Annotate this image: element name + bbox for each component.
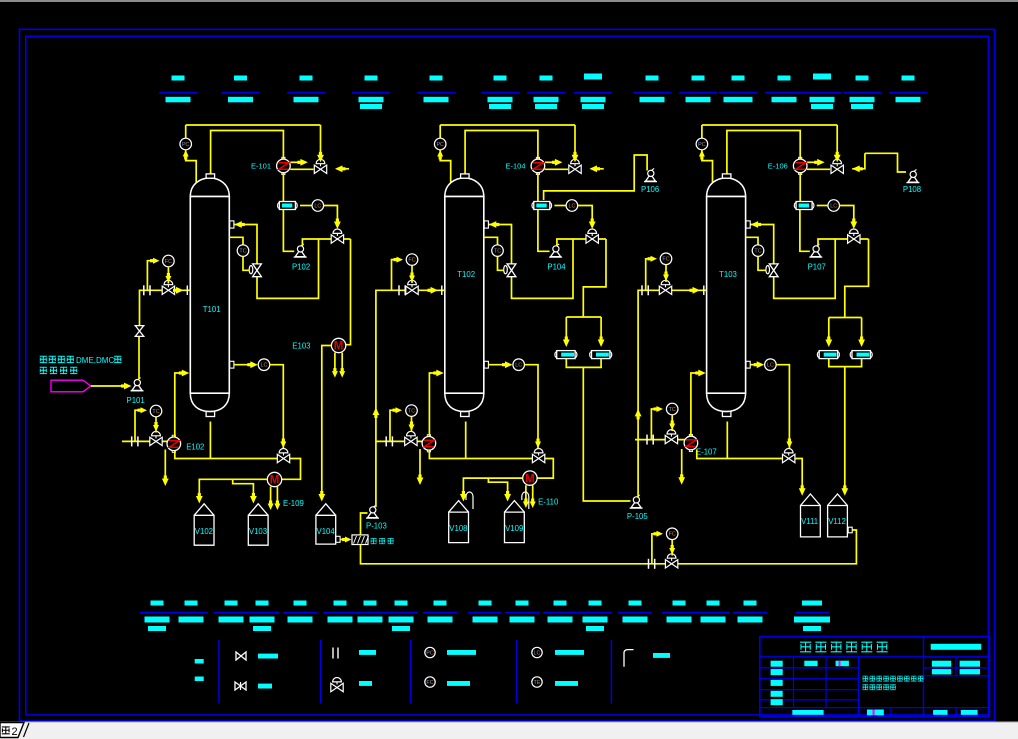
layout tab text <box>2 727 10 734</box>
pump P108 <box>906 182 919 184</box>
svg-text:2: 2 <box>12 726 18 738</box>
svg-text:V103: V103 <box>249 527 267 536</box>
wire P106 to reflux drum T102 <box>544 155 648 200</box>
pump P102 <box>294 256 307 258</box>
wire drum to pump P107 <box>800 210 810 252</box>
wire T102 distillate to driers <box>583 239 606 317</box>
svg-text:LC: LC <box>767 363 774 369</box>
control valve feed T102 <box>406 286 412 294</box>
feed annotation text line2 <box>40 367 47 373</box>
svg-text:TE: TE <box>534 680 541 686</box>
svg-text:T103: T103 <box>719 270 737 279</box>
drier A <box>555 352 559 358</box>
wire condenser to reflux valve <box>807 168 830 170</box>
control valve steam T101 <box>150 437 156 445</box>
control valve distillate T103 <box>848 235 854 243</box>
wire condenser to reflux drum <box>799 173 801 202</box>
wire feed arrow into T102 <box>431 287 439 294</box>
wire T102 bottom nozzle drop <box>465 422 467 459</box>
flange steam T102 <box>385 436 387 446</box>
wire distillate to E103 <box>346 239 351 345</box>
svg-text:P104: P104 <box>547 263 566 272</box>
instrument LC reflux drum <box>300 205 312 207</box>
cooler E103 <box>331 338 345 352</box>
wire PC to column top <box>702 150 713 183</box>
mixer <box>352 535 368 545</box>
svg-text:P107: P107 <box>808 263 826 272</box>
vessel V109 <box>505 512 525 543</box>
column T103 <box>707 178 746 197</box>
wire wash line into valve <box>852 153 865 169</box>
control valve feed T103 <box>659 286 665 294</box>
control valve reflux T103 <box>831 165 837 173</box>
wire feed arrow into T101 <box>176 287 184 294</box>
wire bottoms line T101 <box>175 451 301 480</box>
pump P-105 <box>630 507 643 509</box>
svg-text:LC: LC <box>515 363 522 369</box>
svg-text:FC: FC <box>408 258 415 264</box>
instrument TC steam T102 <box>390 410 395 441</box>
instrument PC T102 overhead <box>439 125 441 138</box>
svg-text:TC: TC <box>494 249 501 255</box>
title block grid lines <box>760 637 990 717</box>
svg-text:V112: V112 <box>828 517 846 526</box>
wire TC to loop valve <box>243 256 250 270</box>
svg-text:E-104: E-104 <box>505 162 525 171</box>
wire LC to bottoms valve <box>776 365 789 450</box>
nozzle reflux T101 <box>230 221 234 228</box>
column T101 <box>190 178 229 197</box>
title block frame <box>760 637 990 717</box>
legend separator lines <box>218 640 220 704</box>
svg-text:E-110: E-110 <box>538 498 559 507</box>
svg-text:E103: E103 <box>292 341 310 350</box>
wire column bottom nozzle drop <box>209 422 211 459</box>
svg-text:E-101: E-101 <box>251 162 271 171</box>
control valve bottoms T102 <box>532 454 538 462</box>
svg-text:M: M <box>334 341 344 353</box>
control valve reflux T101 <box>314 165 320 173</box>
svg-text:T101: T101 <box>203 305 221 314</box>
svg-text:E-107: E-107 <box>696 447 717 456</box>
legend flange symbol <box>332 648 334 659</box>
svg-text:TC: TC <box>669 407 676 413</box>
reflux drum T103 <box>794 203 798 209</box>
wire into vessel V111 <box>799 488 806 496</box>
wire pump discharge line <box>818 239 869 246</box>
svg-text:LC: LC <box>830 203 837 209</box>
instrument LC column T103 <box>746 361 750 368</box>
control valve bottoms T101 <box>277 454 283 462</box>
wire reflux return loop <box>234 225 319 299</box>
control valve bottoms T103 <box>783 454 789 462</box>
wire condenser outlet arrow <box>290 161 300 163</box>
wire steam line to E-107 <box>635 439 685 441</box>
wire feed arrow into T103 <box>693 287 701 294</box>
gate valve feed <box>135 325 145 327</box>
wire feed to pump P101 <box>91 385 124 387</box>
flange feed T101 <box>143 285 145 295</box>
flange recycle pipeline <box>648 559 650 569</box>
legend instrument PC <box>425 647 435 657</box>
instrument LC column T101 <box>230 361 234 368</box>
pump P107 <box>809 256 822 258</box>
wire recycle pipeline V112 to mixer <box>361 530 857 564</box>
svg-text:FC: FC <box>165 259 172 265</box>
control valve steam T103 <box>665 435 671 443</box>
vent gooseneck V108 <box>466 492 473 509</box>
wire top pipe into valve <box>320 125 322 155</box>
wire E-110 to receivers V108 V109 <box>463 478 522 494</box>
wire TC to loop valve <box>758 256 766 270</box>
nozzle reflux T103 <box>746 221 750 228</box>
column T102 <box>445 178 484 197</box>
wire LC to distillate valve <box>840 206 854 222</box>
wire overhead line T101 <box>186 124 321 126</box>
control valve steam T102 <box>405 437 411 445</box>
wire P-103 to T102 feed <box>376 290 445 507</box>
vessel V111 <box>801 506 821 537</box>
cooler E-109 <box>267 472 281 486</box>
wire drum to pump P104 <box>538 210 550 252</box>
flange feed T103 <box>641 285 643 295</box>
reflux drum T102 <box>532 203 536 209</box>
svg-text:P-103: P-103 <box>366 521 387 530</box>
svg-text:PC: PC <box>436 142 444 148</box>
wire TC to loop valve <box>498 256 505 270</box>
svg-text:M: M <box>525 473 535 485</box>
legend gate valve symbol <box>236 652 241 660</box>
wire overhead line T102 <box>440 124 575 126</box>
nozzle reflux T102 <box>484 221 488 228</box>
nozzle V112 outlet <box>848 527 852 533</box>
flange steam T101 <box>131 436 133 446</box>
svg-text:TC: TC <box>239 249 246 255</box>
wire feed line to column T101 <box>140 290 191 325</box>
wire reflux return loop <box>750 225 835 299</box>
svg-text:V104: V104 <box>317 527 336 536</box>
svg-text:LC: LC <box>314 203 321 209</box>
wire mixer to pump P-103 <box>361 513 368 535</box>
wire driers to P-105 <box>566 359 601 368</box>
svg-text:TC: TC <box>152 409 159 415</box>
wire bottoms line T103 <box>697 450 802 488</box>
condenser E-101 <box>282 157 285 159</box>
svg-text:P102: P102 <box>292 263 310 272</box>
svg-text:P106: P106 <box>641 185 659 194</box>
wire E-110 cooling water arrows <box>525 485 527 501</box>
vessel V112 <box>828 506 848 537</box>
svg-text:TC: TC <box>754 249 761 255</box>
wire wash line into valve <box>337 168 350 170</box>
svg-text:FC: FC <box>426 680 433 686</box>
drier C <box>817 352 821 358</box>
svg-text:DME,DMC.: DME,DMC. <box>76 356 116 365</box>
wire LC to distillate valve <box>324 206 338 222</box>
svg-text:P-105: P-105 <box>627 512 648 521</box>
control valve distillate T101 <box>331 235 337 243</box>
legend instrument LC <box>532 647 542 657</box>
condenser E-104 <box>536 157 539 159</box>
instrument LC reflux drum <box>817 205 828 207</box>
top stream tag row <box>159 74 927 110</box>
svg-text:V102: V102 <box>195 527 213 536</box>
feed stream flag <box>51 380 91 392</box>
wire condenser to reflux valve <box>545 168 568 170</box>
wire T103 bottom nozzle drop <box>726 422 728 459</box>
legend tag dashes <box>195 659 204 664</box>
wire E103 to vessel V104 <box>322 346 332 495</box>
nozzle V104 outlet <box>336 536 340 542</box>
instrument FC feed T101 <box>147 261 153 291</box>
feed annotation text line1 <box>40 356 47 362</box>
layout tab <box>0 723 24 738</box>
svg-text:P108: P108 <box>903 185 921 194</box>
svg-text:V111: V111 <box>801 517 818 526</box>
wire V104 to mixer <box>340 539 345 541</box>
vessel V108 <box>449 512 469 543</box>
instrument TC reflux loop <box>229 237 243 245</box>
flange steam T103 <box>646 435 648 445</box>
drier D <box>850 352 854 358</box>
legend check valve symbol <box>235 682 241 690</box>
wire E-109 cooling water arrows <box>270 487 272 503</box>
instrument PC T101 overhead <box>185 125 187 138</box>
wire condenser outlet arrow <box>545 161 555 163</box>
wire P101 riser to feed valve <box>138 337 140 379</box>
instrument FC feed T103 <box>646 259 651 291</box>
wire E103 cooling water arrows <box>334 353 336 371</box>
wire condenser to reflux drum <box>282 173 284 202</box>
instrument PC T103 overhead <box>701 125 703 138</box>
wire LC to distillate valve <box>578 206 593 222</box>
legend instrument TE <box>532 677 542 687</box>
instrument TC reflux loop <box>484 237 498 245</box>
instrument FC recycle <box>652 534 657 564</box>
wire E105 condensate out <box>419 449 421 477</box>
wire reflux return loop <box>488 225 573 299</box>
wire T103 distillate to driers <box>845 239 869 318</box>
wire PC to column top <box>186 150 197 183</box>
instrument TC steam T103 <box>651 409 656 439</box>
valve reflux loop <box>249 266 253 274</box>
valve reflux loop <box>766 266 770 274</box>
svg-text:FC: FC <box>669 532 676 538</box>
control valve distillate T102 <box>586 235 592 243</box>
layout tab bar <box>0 722 1018 739</box>
svg-text:PC: PC <box>698 142 706 148</box>
title block bottom row bars <box>792 710 823 715</box>
pump P106 <box>644 181 657 183</box>
svg-text:LC: LC <box>534 650 541 656</box>
svg-text:V108: V108 <box>449 524 467 533</box>
pump P101 <box>131 390 144 392</box>
reboiler E-107 <box>689 434 692 436</box>
wire condenser outlet arrow <box>807 161 817 163</box>
wire E-109 to receivers V102 V103 <box>199 479 267 496</box>
control valve recycle <box>665 560 671 568</box>
control valve feed T101 <box>162 286 168 294</box>
drier manifold T103 distillate <box>829 317 862 319</box>
svg-text:T102: T102 <box>457 270 475 279</box>
wire steam line to E102 <box>122 440 167 442</box>
instrument TC reflux loop <box>746 237 758 245</box>
reflux drum T101 <box>278 203 282 209</box>
title block right header bar <box>931 644 982 650</box>
title block row bars <box>771 661 783 667</box>
vessel V103 <box>248 515 268 545</box>
wire driers to V112 <box>829 359 862 367</box>
svg-text:E-109: E-109 <box>283 499 304 508</box>
wire top pipe into valve <box>574 125 576 155</box>
wire overhead line T103 <box>702 124 837 126</box>
wire LC to bottoms valve <box>270 365 284 450</box>
pump P104 <box>549 256 562 258</box>
legend elbow symbol <box>624 650 634 667</box>
wire LC to bottoms valve <box>525 365 539 450</box>
vent gooseneck V109 <box>522 492 529 509</box>
instrument FC feed T102 <box>392 260 397 291</box>
instrument LC reflux drum <box>554 205 566 207</box>
wire wash line into valve <box>591 168 604 170</box>
condenser E-106 <box>799 157 802 159</box>
bottom stream tag row <box>140 601 830 632</box>
svg-text:PC: PC <box>182 142 190 148</box>
wire drum to pump P102 <box>283 210 294 252</box>
instrument LC column T102 <box>484 361 488 368</box>
svg-text:LC: LC <box>568 203 575 209</box>
wire condenser to reflux drum <box>537 173 539 202</box>
wire E-107 condensate out <box>681 449 683 477</box>
wire E-107 vapor to column T103 <box>691 373 699 436</box>
svg-text:PC: PC <box>426 650 434 656</box>
svg-text:E102: E102 <box>186 442 204 451</box>
svg-text:FC: FC <box>662 257 669 263</box>
legend control valve symbol <box>331 683 337 691</box>
drier manifold T102 distillate <box>566 316 601 318</box>
title text university name <box>800 642 811 652</box>
wire E105 vapor to column T102 <box>429 373 436 436</box>
svg-text:M: M <box>270 475 280 487</box>
wire steam line to E105 <box>377 440 423 442</box>
valve reflux loop <box>504 266 508 274</box>
vessel V104 <box>316 515 336 544</box>
cooler E-110 <box>523 471 537 485</box>
svg-text:E-106: E-106 <box>768 162 788 171</box>
title block drawing name text <box>863 676 869 681</box>
top window edge strip <box>0 0 1018 2</box>
wire pump discharge line <box>302 239 350 246</box>
wire E102 condensate out <box>164 450 166 479</box>
svg-text:P101: P101 <box>127 396 145 405</box>
svg-text:V109: V109 <box>505 524 523 533</box>
wire bottoms line T102 <box>429 450 553 478</box>
reboiler E105 <box>427 435 430 437</box>
wire top pipe into valve <box>836 125 838 155</box>
pump P-103 <box>366 517 379 519</box>
legend instrument FC <box>425 677 435 687</box>
wire condenser to reflux valve <box>290 168 313 170</box>
wire PC to column top <box>440 150 451 183</box>
svg-text:TC: TC <box>408 409 415 415</box>
instrument TC steam T101 <box>135 410 140 441</box>
wire FC to feed valve <box>167 267 169 284</box>
vessel V102 <box>194 515 214 545</box>
control valve reflux T102 <box>569 165 575 173</box>
wire pump discharge line <box>557 239 606 246</box>
reboiler E102 <box>172 435 175 437</box>
svg-text:LC: LC <box>261 363 268 369</box>
wire E102 vapor to column T101 <box>175 373 182 437</box>
drier B <box>590 352 594 358</box>
wire P108 to wash line <box>865 153 906 172</box>
flange feed T102 <box>398 285 400 295</box>
wire P-105 to T103 feed <box>638 290 706 497</box>
